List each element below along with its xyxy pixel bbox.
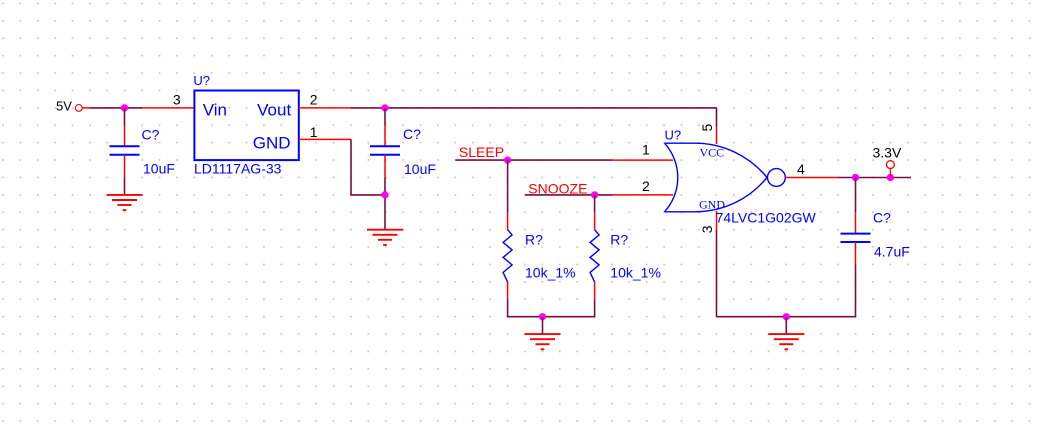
wire C3 bottom to gate gnd: [717, 265, 856, 317]
svg-text:10uF: 10uF: [143, 161, 175, 177]
svg-text:C?: C?: [403, 126, 421, 142]
wire 3.3V rail top: [351, 107, 717, 109]
wire C2 to ground: [384, 178, 386, 230]
svg-text:C?: C?: [142, 126, 160, 142]
svg-text:R?: R?: [525, 232, 543, 248]
ground stem gate: [785, 317, 787, 334]
svg-text:Vin: Vin: [203, 101, 227, 120]
svg-text:3: 3: [173, 92, 181, 108]
svg-text:Vout: Vout: [257, 101, 291, 120]
ground under C2: [367, 230, 403, 245]
svg-text:74LVC1G02GW: 74LVC1G02GW: [716, 210, 817, 226]
svg-text:1: 1: [642, 142, 650, 158]
svg-text:5: 5: [699, 124, 715, 132]
wire SNOOZE: [525, 194, 613, 196]
gate U2 input pin 1: [613, 159, 673, 161]
gate pin 3: [716, 211, 718, 230]
resistor R2: [590, 195, 599, 299]
junction gate ground: [783, 313, 790, 320]
svg-text:10k_1%: 10k_1%: [525, 265, 576, 281]
power port 5V: [56, 99, 82, 114]
svg-text:10uF: 10uF: [404, 161, 436, 177]
port 5V pin stub: [82, 107, 90, 109]
svg-text:2: 2: [642, 178, 650, 194]
wire C3 top: [855, 178, 857, 213]
regulator U1 pin 2: [299, 107, 351, 109]
gate output pin 4: [785, 177, 838, 179]
gate U2 input pin 2: [613, 194, 673, 196]
wire U1 pin1 to C2 bottom junction: [351, 139, 385, 195]
svg-text:1: 1: [310, 124, 318, 140]
power port 3.3V: [873, 145, 902, 178]
junction at C1 top: [121, 104, 128, 111]
junction at C2 top: [382, 104, 389, 111]
wire R1 top: [507, 160, 509, 212]
capacitor C3: [841, 212, 871, 264]
svg-text:GND: GND: [699, 197, 725, 211]
ground under C1: [107, 195, 143, 210]
svg-text:U?: U?: [193, 73, 210, 88]
svg-text:VCC: VCC: [700, 145, 725, 159]
capacitor C2: [370, 125, 400, 177]
svg-text:SLEEP: SLEEP: [459, 144, 504, 160]
svg-text:LD1117AG-33: LD1117AG-33: [194, 160, 282, 176]
wire gate VCC pin 5: [716, 108, 718, 127]
svg-text:4.7uF: 4.7uF: [874, 243, 910, 259]
regulator U1 pin 3: [142, 107, 194, 109]
junction SNOOZE / R2: [591, 191, 598, 198]
wire SLEEP: [455, 159, 612, 161]
ground under resistors: [525, 334, 561, 349]
wire C1 top: [124, 108, 126, 125]
wire C2 top: [384, 108, 386, 125]
wire gate GND down: [716, 230, 718, 317]
svg-text:5V: 5V: [56, 99, 72, 114]
ground stem resistors: [542, 317, 544, 334]
svg-text:10k_1%: 10k_1%: [610, 265, 661, 281]
wire output net: [838, 177, 911, 179]
wire resistor bottoms: [508, 299, 595, 316]
svg-text:3: 3: [699, 225, 715, 233]
svg-text:C?: C?: [873, 210, 891, 226]
gate pin 5: [716, 127, 718, 145]
resistor R1: [503, 212, 512, 299]
junction C2 bottom: [382, 191, 389, 198]
svg-text:2: 2: [310, 92, 318, 108]
junction C3 top: [852, 174, 859, 181]
svg-text:U?: U?: [665, 127, 682, 142]
regulator U1 pin 1: [299, 138, 351, 140]
NOR gate U2 body: [665, 143, 786, 212]
capacitor C1: [110, 125, 140, 177]
ground under gate: [768, 334, 804, 349]
svg-text:4: 4: [797, 161, 805, 177]
regulator U1 body: [194, 91, 298, 161]
svg-text:GND: GND: [253, 134, 291, 153]
svg-text:SNOOZE: SNOOZE: [528, 180, 587, 196]
svg-text:R?: R?: [610, 232, 628, 248]
junction resistor ground: [539, 313, 546, 320]
junction SLEEP / R1: [504, 157, 511, 164]
wire 5V rail to U1 pin 3: [90, 107, 142, 109]
svg-text:3.3V: 3.3V: [873, 145, 902, 161]
wire C1 to ground: [124, 178, 126, 195]
junction 3.3V port: [887, 174, 894, 181]
